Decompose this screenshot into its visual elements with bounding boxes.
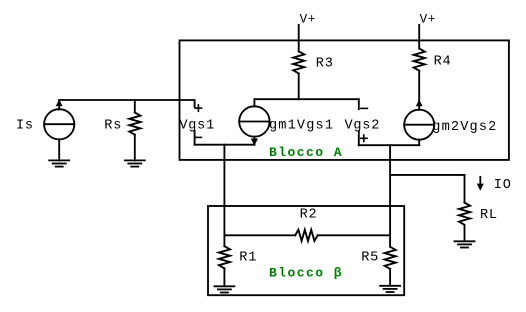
port Vgs1 plus-terminal stub [194,100,196,107]
svg-text:R3: R3 [316,57,334,72]
svg-text:Vgs2: Vgs2 [345,119,381,134]
wire drain rail (gm1 top / R3 / Vgs2 -) [254,98,358,100]
svg-text:Rs: Rs [104,119,122,134]
svg-text:Vgs1: Vgs1 [179,119,215,134]
svg-text:RL: RL [480,208,498,223]
block A box [180,40,509,159]
svg-text:V+: V+ [300,13,317,27]
resistor RL [459,203,470,225]
current arrow I0 [479,177,481,184]
minus sign Vgs2 [361,107,367,109]
plus sign Vgs1 [195,107,201,109]
supply V+ stub (right) [418,25,420,49]
svg-text:gm1Vgs1: gm1Vgs1 [269,119,334,134]
dependent source gm2Vgs2 [404,110,434,140]
resistor R2 (horizontal) [224,234,295,236]
wire output node down (to R5 / R2) [389,145,391,235]
svg-text:R2: R2 [300,208,318,223]
wire Is to ground [58,139,60,160]
ground (below R1) [214,285,234,287]
svg-text:Is: Is [16,118,34,133]
wire source rail (Vgs2 + to gm2 bottom) [359,144,419,146]
resistor R5 [389,235,391,247]
svg-text:V+: V+ [420,13,437,27]
svg-text:IO: IO [494,178,512,193]
ground (below Rs) [125,159,145,161]
minus sign Vgs1 [195,136,201,138]
wire feedback node down (Vgs1 - to R1 / R2) [223,145,225,236]
ground (below Is) [49,159,69,161]
wire Rs to ground [134,135,136,161]
port Vgs2 minus-terminal stub [358,99,360,109]
resistor R3 [293,51,304,73]
wire output to RL branch [390,174,464,176]
svg-text:gm2Vgs2: gm2Vgs2 [432,120,497,135]
dependent source gm1Vgs1 [239,106,269,136]
plus sign Vgs2 [361,137,367,139]
current source Is [44,109,74,139]
svg-text:R5: R5 [361,250,379,265]
resistor R1 [223,235,225,246]
block beta box [208,206,404,295]
port Vgs1 minus-terminal stub [194,131,196,145]
wire input node (Is/Rs to Vgs1 +) [59,99,194,101]
resistor R4 [414,49,425,71]
wire RL to ground [464,225,466,242]
svg-text:R1: R1 [239,250,257,265]
wire bottom rail (Vgs1 - to gm1 out) [195,144,255,146]
resistor Rs [134,100,136,113]
ground (below R5) [380,285,400,287]
svg-text:Blocco β: Blocco β [269,266,343,281]
ground (below RL) [455,240,475,242]
svg-text:R4: R4 [434,55,452,70]
port Vgs2 plus-terminal stub [358,131,360,145]
supply V+ stub (left) [298,25,300,51]
svg-text:Blocco A: Blocco A [269,145,343,160]
